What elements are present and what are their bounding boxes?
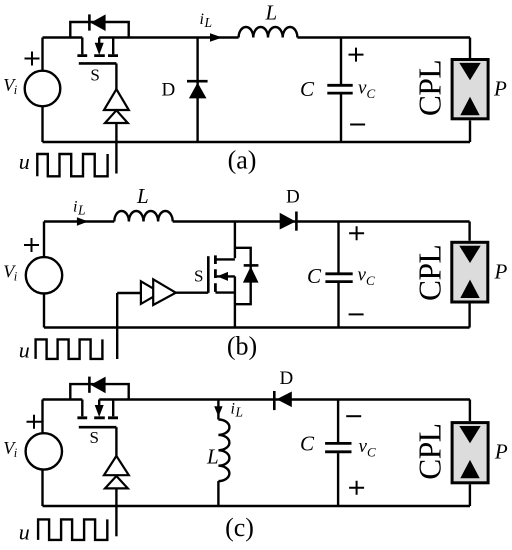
svg-text:(c): (c) xyxy=(225,513,254,542)
svg-text:u: u xyxy=(19,149,30,174)
svg-text:S: S xyxy=(194,267,203,286)
svg-text:Vi: Vi xyxy=(3,75,18,97)
svg-text:iL: iL xyxy=(231,401,243,420)
svg-text:vC: vC xyxy=(358,265,375,289)
svg-text:P: P xyxy=(493,77,507,101)
svg-text:S: S xyxy=(90,428,99,447)
svg-text:CPL: CPL xyxy=(413,245,448,301)
svg-text:S: S xyxy=(90,66,99,85)
svg-text:iL: iL xyxy=(200,11,212,30)
svg-text:vC: vC xyxy=(359,436,376,460)
svg-text:D: D xyxy=(162,80,176,101)
svg-text:(b): (b) xyxy=(227,331,257,360)
svg-text:iL: iL xyxy=(73,199,85,218)
svg-text:L: L xyxy=(136,184,149,208)
svg-text:CPL: CPL xyxy=(413,60,448,116)
svg-text:CPL: CPL xyxy=(413,423,448,479)
svg-text:L: L xyxy=(206,445,219,469)
svg-text:D: D xyxy=(286,187,300,208)
svg-text:u: u xyxy=(19,520,30,545)
svg-text:C: C xyxy=(300,77,315,101)
svg-text:(a): (a) xyxy=(228,146,257,175)
svg-text:C: C xyxy=(300,432,315,456)
svg-text:u: u xyxy=(19,338,30,363)
svg-text:vC: vC xyxy=(358,78,375,102)
svg-text:Vi: Vi xyxy=(3,438,18,460)
svg-text:D: D xyxy=(280,368,294,389)
svg-text:P: P xyxy=(494,260,508,284)
svg-text:P: P xyxy=(494,440,508,464)
svg-text:L: L xyxy=(265,1,278,25)
svg-text:C: C xyxy=(307,264,322,288)
svg-text:Vi: Vi xyxy=(3,262,18,284)
